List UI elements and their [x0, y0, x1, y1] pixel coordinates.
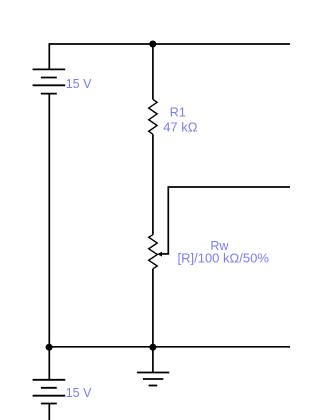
wire left vertical bottom (battery V2 to bottom edge): [48, 404, 50, 420]
wire bottom horizontal (node B to right edge): [49, 346, 290, 348]
resistor R1 zigzag: [149, 99, 157, 134]
wire top horizontal (V1+ to node A to right edge): [49, 43, 290, 45]
svg-text:47 kΩ: 47 kΩ: [163, 119, 198, 134]
node A junction dot (top): [149, 41, 156, 48]
wire wiper branch vertical: [167, 186, 169, 254]
wire ground stub: [152, 347, 154, 373]
battery V2 (15 V) plates: [33, 380, 66, 404]
potentiometer Rw zigzag: [149, 235, 158, 269]
node B junction dot (bottom left): [46, 344, 53, 351]
wire left vertical middle (battery V1 to bottom node B): [48, 94, 50, 347]
wire wiper branch horizontal into arrow: [161, 253, 169, 255]
wire middle horizontal (wiper branch to right edge): [168, 186, 290, 188]
svg-text:15 V: 15 V: [66, 386, 92, 400]
ground symbol: [137, 373, 169, 386]
wire middle vertical (R1 bottom to potentiometer top): [152, 134, 154, 235]
wire left vertical upper (top corner to battery V1): [48, 43, 50, 69]
svg-text:[R]/100 kΩ/50%: [R]/100 kΩ/50%: [178, 251, 270, 266]
svg-text:15 V: 15 V: [66, 77, 92, 91]
battery V1 (15 V) plates: [33, 69, 66, 93]
wire left vertical lower (node B to battery V2): [48, 347, 50, 380]
potentiometer Rw wiper arrowhead: [157, 252, 162, 257]
wire middle vertical (node A to R1 top): [152, 44, 154, 99]
svg-text:R1: R1: [170, 105, 186, 119]
wire middle vertical (potentiometer bottom to node C): [152, 269, 154, 347]
node C junction dot (bottom middle): [149, 344, 156, 351]
